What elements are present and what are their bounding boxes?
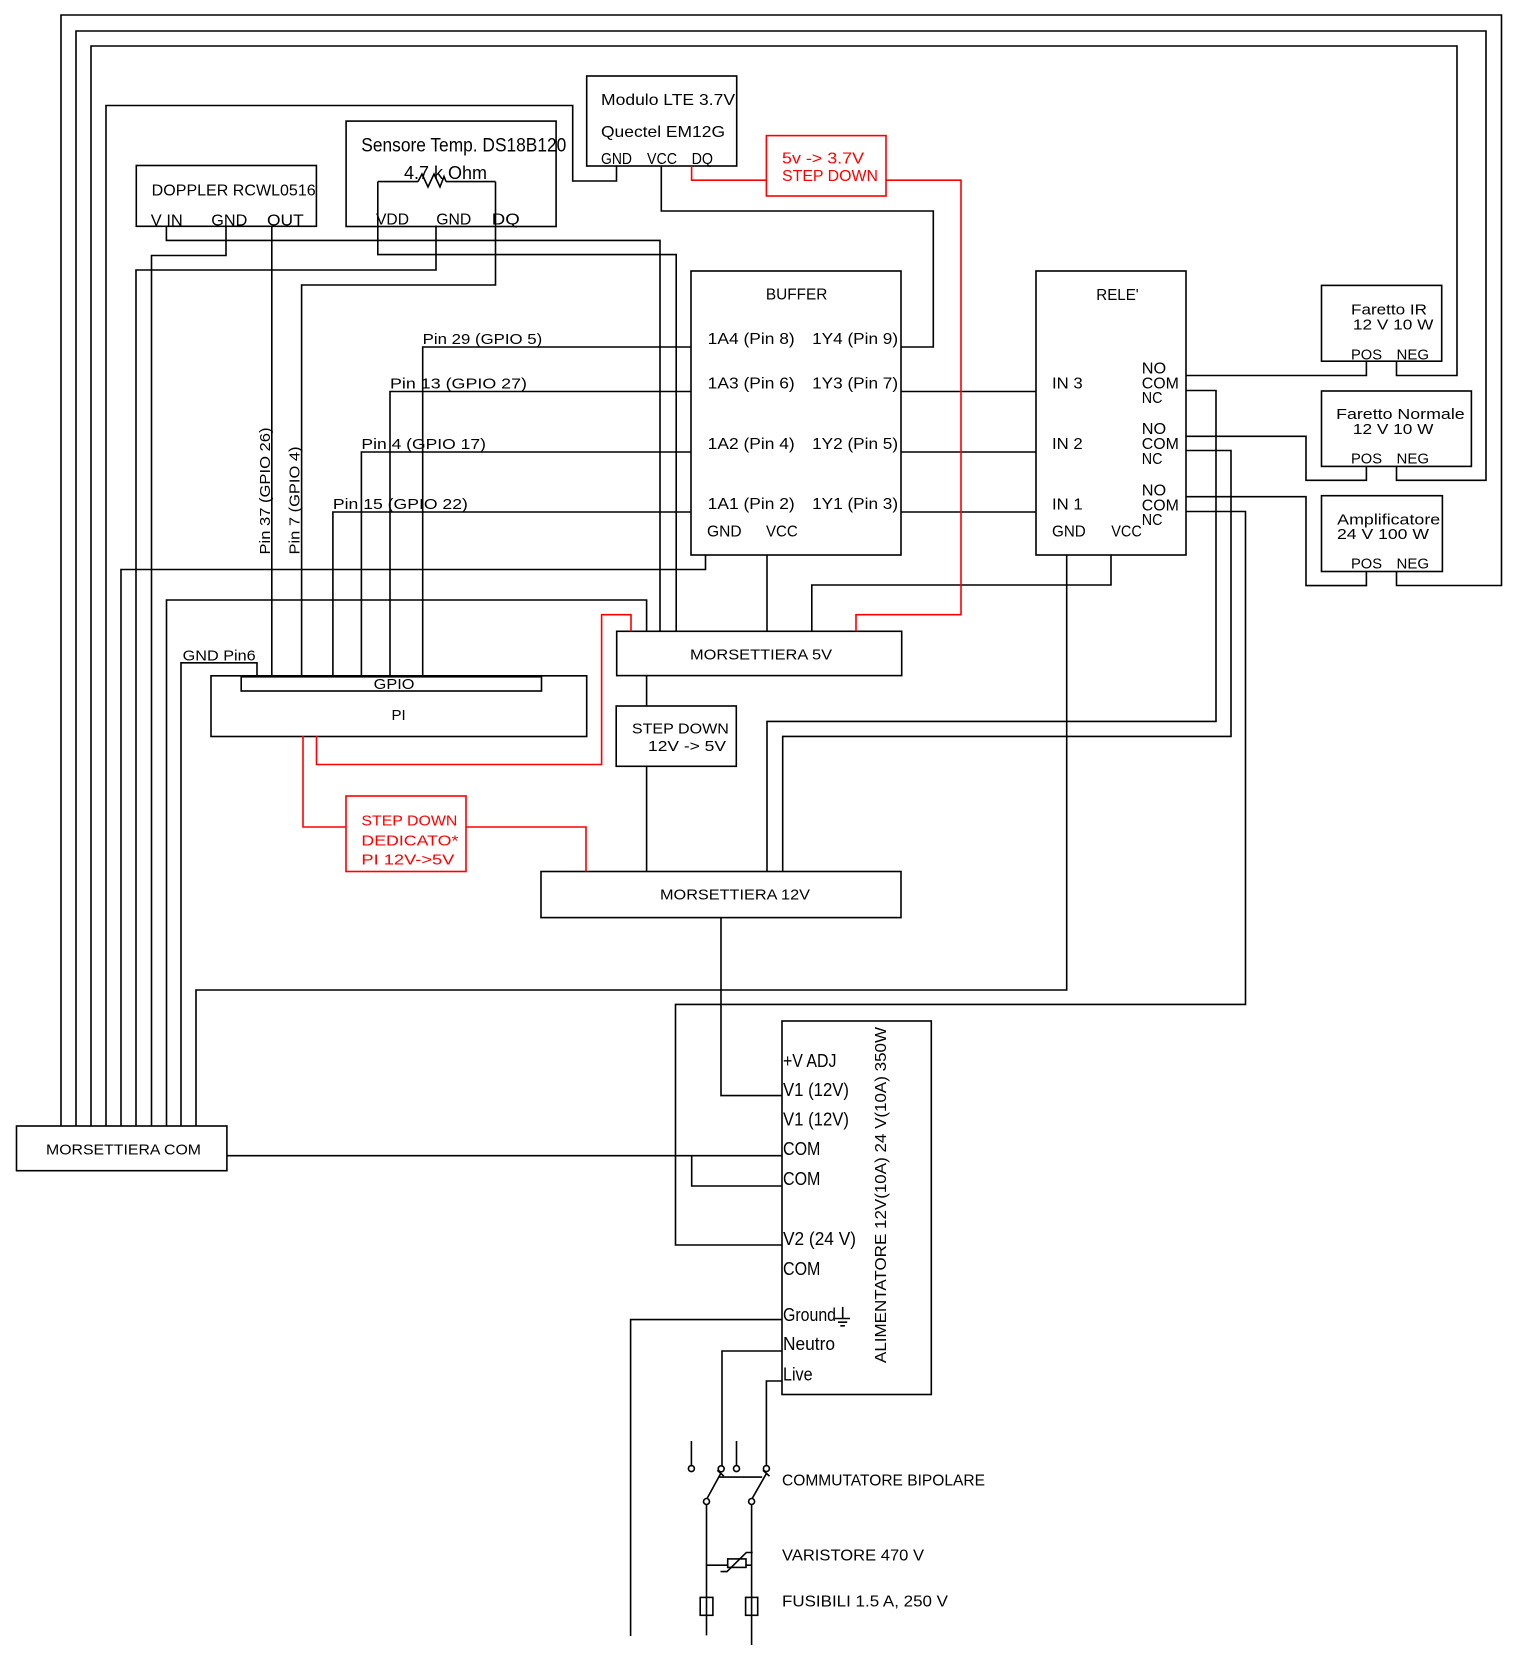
svg-text:1Y3 (Pin 7): 1Y3 (Pin 7) <box>812 376 898 393</box>
wire NEG-loop Faretto IR (frame 3) <box>91 46 1457 1126</box>
wire BUFFER VCC to MORSETTIERA 5V <box>766 555 768 631</box>
wire Sensore DQ = Pin 7 (GPIO 4) <box>302 182 496 677</box>
box MORSETTIERA 12V <box>541 872 901 918</box>
commutatore link bar <box>719 1476 762 1478</box>
svg-text:COM: COM <box>783 1139 820 1159</box>
wire LTE GND loop (frame 4) <box>106 106 617 1127</box>
wire Pin 29 (GPIO 5) to BUFFER 1A4 <box>423 347 691 677</box>
wire LTE DQ to red step down (red) <box>692 166 767 180</box>
svg-text:VDD: VDD <box>376 212 409 229</box>
wire MORSETTIERA 5V to STEP DOWN 12V-5V <box>646 676 648 706</box>
svg-text:PI 12V->5V: PI 12V->5V <box>361 852 454 869</box>
wire MORSETTIERA 12V to ALIMENTATORE V1 12V <box>721 918 782 1096</box>
varistore body <box>728 1559 746 1568</box>
fuse F2 <box>746 1597 758 1615</box>
wire STEP DOWN DEDICATO to MORSETTIERA 12V (red) <box>466 827 586 872</box>
svg-text:GND: GND <box>436 212 471 229</box>
svg-text:Pin 29 (GPIO 5): Pin 29 (GPIO 5) <box>423 331 543 348</box>
svg-text:FUSIBILI 1.5 A, 250 V: FUSIBILI 1.5 A, 250 V <box>782 1594 948 1611</box>
svg-text:ALIMENTATORE 12V(10A) 24 V(10: ALIMENTATORE 12V(10A) 24 V(10A) 350W <box>873 1026 890 1363</box>
wire RELE COM(IN2) to MORSETTIERA 12V <box>783 451 1231 872</box>
wire Sensore GND to MORSETTIERA COM <box>136 226 436 1127</box>
svg-text:NC: NC <box>1142 451 1163 468</box>
svg-text:GND Pin6: GND Pin6 <box>183 648 256 665</box>
commutatore terminal circle A <box>688 1466 694 1472</box>
wire varistore taps <box>707 1564 752 1566</box>
svg-text:Modulo LTE 3.7V: Modulo LTE 3.7V <box>601 92 735 109</box>
svg-text:1A4 (Pin 8): 1A4 (Pin 8) <box>708 331 795 348</box>
box Faretto Normale <box>1322 391 1472 466</box>
commutatore terminal circle Neutro <box>718 1466 724 1472</box>
svg-text:GND: GND <box>211 213 247 230</box>
svg-text:Live: Live <box>783 1365 813 1385</box>
svg-text:Sensore Temp. DS18B120: Sensore Temp. DS18B120 <box>361 136 566 157</box>
svg-text:STEP DOWN: STEP DOWN <box>782 168 878 185</box>
box Faretto IR <box>1322 285 1442 361</box>
svg-text:GND: GND <box>601 151 632 168</box>
varistore strike line <box>721 1553 753 1572</box>
commutatore terminal circle Live <box>763 1466 769 1472</box>
box Modulo LTE <box>587 76 737 166</box>
box STEP DOWN DEDICATO PI (red) <box>346 796 466 872</box>
box Sensore Temp. DS18B120 <box>346 121 556 226</box>
box BUFFER <box>691 271 901 555</box>
svg-text:VCC: VCC <box>766 524 798 541</box>
wire commutatore pole 2 down through fuse <box>751 1504 753 1645</box>
box DOPPLER RCWL0516 <box>136 166 316 227</box>
svg-text:V IN: V IN <box>151 213 183 230</box>
svg-text:COMMUTATORE BIPOLARE: COMMUTATORE BIPOLARE <box>782 1473 985 1490</box>
svg-text:POS: POS <box>1351 556 1382 573</box>
svg-text:12V -> 5V: 12V -> 5V <box>648 738 726 755</box>
box RELE <box>1036 271 1186 555</box>
wire BUFFER 1Y2 to RELE IN 2 <box>901 451 1036 453</box>
box MORSETTIERA COM <box>17 1126 227 1171</box>
svg-text:MORSETTIERA 12V: MORSETTIERA 12V <box>660 887 810 904</box>
box STEP DOWN 12V-5V <box>616 706 736 766</box>
svg-text:BUFFER: BUFFER <box>766 287 828 304</box>
svg-text:Quectel EM12G: Quectel EM12G <box>601 124 725 141</box>
wire NEG-loop Faretto Normale (frame 2) <box>76 31 1486 1126</box>
svg-text:COM: COM <box>783 1259 820 1279</box>
wire Pin 4 (GPIO 17) to BUFFER 1A2 <box>361 452 691 677</box>
svg-text:DQ: DQ <box>492 212 520 229</box>
box GPIO header <box>241 677 541 691</box>
wire STEP DOWN 12V-5V to MORSETTIERA 12V <box>646 766 648 871</box>
box ALIMENTATORE <box>782 1021 931 1395</box>
svg-text:1Y1 (Pin 3): 1Y1 (Pin 3) <box>812 496 898 513</box>
svg-text:Pin 37 (GPIO 26): Pin 37 (GPIO 26) <box>257 428 274 555</box>
wire RELE COM(IN1) to ALIMENTATORE V2 24V <box>676 512 1246 1246</box>
svg-text:COM: COM <box>783 1169 820 1189</box>
wire PI to STEP DOWN DEDICATO (red) <box>303 736 346 827</box>
wire PI 5V feed from dedicated step down (red) <box>317 615 632 765</box>
wire MORSETTIERA COM to ALIMENTATORE COM <box>227 1155 782 1157</box>
svg-text:NEG: NEG <box>1397 347 1430 364</box>
wire ALIMENTATORE Live to commutatore <box>766 1381 782 1466</box>
wire ALIMENTATORE Neutro to commutatore <box>722 1351 782 1466</box>
wire BUFFER 1Y3 to RELE IN 3 <box>901 391 1036 393</box>
svg-text:IN 2: IN 2 <box>1052 436 1083 453</box>
commutatore stub terminals <box>691 1441 736 1466</box>
wire PI GND Pin6 to MORSETTIERA COM <box>181 663 257 1126</box>
svg-text:MORSETTIERA 5V: MORSETTIERA 5V <box>690 647 832 664</box>
wire Doppler GND to MORSETTIERA COM <box>152 226 227 1126</box>
ground symbol at ALIMENTATORE <box>835 1307 850 1326</box>
svg-text:5v -> 3.7V: 5v -> 3.7V <box>782 151 864 168</box>
commutatore blade 1 <box>707 1470 724 1499</box>
wire RELE COM(IN3) to MORSETTIERA 12V <box>767 391 1216 872</box>
svg-text:Pin 4 (GPIO 17): Pin 4 (GPIO 17) <box>361 436 486 453</box>
wire commutatore pole 1 down through fuse <box>706 1504 708 1635</box>
svg-text:+V ADJ: +V ADJ <box>783 1051 836 1071</box>
wire Pin 15 (GPIO 22) to BUFFER 1A1 <box>333 512 691 677</box>
resistor 4.7k zigzag <box>418 174 446 187</box>
wire RELE NO(IN3) to Faretto IR POS <box>1186 361 1366 375</box>
svg-text:OUT: OUT <box>267 213 304 230</box>
wire RELE GND / MORSETTIERA COM bus <box>196 555 1067 1126</box>
svg-text:Pin 13 (GPIO 27): Pin 13 (GPIO 27) <box>390 376 527 393</box>
wire LTE VCC to BUFFER 1Y4 <box>661 166 933 347</box>
svg-text:IN 3: IN 3 <box>1052 376 1083 393</box>
svg-text:DQ: DQ <box>692 151 713 168</box>
svg-text:Pin 7 (GPIO 4): Pin 7 (GPIO 4) <box>287 447 304 555</box>
svg-text:1Y2 (Pin 5): 1Y2 (Pin 5) <box>812 436 898 453</box>
svg-text:GND: GND <box>707 524 742 541</box>
fuse F1 <box>700 1597 713 1615</box>
svg-text:4.7 k Ohm: 4.7 k Ohm <box>404 163 487 183</box>
wire Pin 13 (GPIO 27) to BUFFER 1A3 <box>390 392 691 678</box>
svg-text:GPIO: GPIO <box>374 676 415 693</box>
svg-text:Neutro: Neutro <box>783 1334 835 1354</box>
svg-text:MORSETTIERA COM: MORSETTIERA COM <box>46 1142 201 1159</box>
svg-text:POS: POS <box>1351 347 1382 364</box>
wire NEG-loop Amplificatore (outer frame) <box>61 15 1502 1126</box>
box 5v-3.7V STEP DOWN (red) <box>766 136 886 196</box>
svg-text:12 V 10 W: 12 V 10 W <box>1353 317 1434 334</box>
wire RELE VCC to MORSETTIERA 5V <box>812 555 1111 631</box>
svg-text:PI: PI <box>392 707 406 724</box>
wire BUFFER GND to MORSETTIERA COM <box>121 555 706 1126</box>
svg-text:VARISTORE 470 V: VARISTORE 470 V <box>782 1548 924 1565</box>
wire Doppler OUT = Pin 37 (GPIO 26) <box>271 226 273 677</box>
resistor 4.7k horizontal lead <box>378 181 496 183</box>
box MORSETTIERA 5V <box>617 631 902 675</box>
svg-text:1A2 (Pin 4): 1A2 (Pin 4) <box>708 436 795 453</box>
svg-text:VCC: VCC <box>1111 524 1142 541</box>
svg-text:IN 1: IN 1 <box>1052 497 1083 514</box>
svg-text:V1 (12V): V1 (12V) <box>783 1080 849 1100</box>
svg-text:12 V 10 W: 12 V 10 W <box>1353 421 1434 438</box>
wire Doppler V IN to MORSETTIERA 5V <box>166 226 660 631</box>
svg-text:POS: POS <box>1351 451 1382 468</box>
svg-text:NC: NC <box>1142 512 1163 529</box>
svg-text:DEDICATO*: DEDICATO* <box>361 832 458 849</box>
svg-text:STEP DOWN: STEP DOWN <box>632 721 729 738</box>
wire RELE NO(IN2) to Faretto Normale POS <box>1186 436 1366 480</box>
commutatore terminal circle B <box>734 1466 740 1472</box>
svg-text:V1 (12V): V1 (12V) <box>783 1109 849 1129</box>
svg-text:NC: NC <box>1142 390 1163 407</box>
svg-text:NEG: NEG <box>1397 556 1430 573</box>
wire red step down to MORSETTIERA 5V (red) <box>856 180 961 631</box>
svg-text:1Y4 (Pin 9): 1Y4 (Pin 9) <box>812 331 898 348</box>
svg-text:RELE': RELE' <box>1096 287 1138 304</box>
box Amplificatore <box>1322 496 1443 572</box>
svg-text:STEP DOWN: STEP DOWN <box>361 813 457 830</box>
svg-text:GND: GND <box>1052 524 1086 541</box>
svg-text:Pin 15 (GPIO 22): Pin 15 (GPIO 22) <box>333 496 468 513</box>
wire branch to ALIMENTATORE COM 2 <box>692 1156 782 1186</box>
wire ALIMENTATORE Ground earth lead <box>631 1320 782 1636</box>
wire MORSETTIERA 5V COM pin to MORSETTIERA COM <box>167 600 647 1126</box>
svg-text:Ground: Ground <box>783 1305 836 1325</box>
svg-text:1A3 (Pin 6): 1A3 (Pin 6) <box>708 376 795 393</box>
wire RELE NO(IN1) to Amplificatore POS <box>1186 497 1366 586</box>
wire BUFFER 1Y1 to RELE IN 1 <box>901 511 1036 513</box>
commutatore pole circle 1 <box>704 1499 710 1505</box>
svg-text:DOPPLER RCWL0516: DOPPLER RCWL0516 <box>152 182 316 199</box>
svg-text:V2 (24 V): V2 (24 V) <box>783 1229 856 1249</box>
svg-text:VCC: VCC <box>647 151 677 168</box>
commutatore pole circle 2 <box>749 1499 755 1505</box>
commutatore blade 2 <box>752 1470 770 1499</box>
svg-text:24 V 100 W: 24 V 100 W <box>1337 526 1430 543</box>
svg-text:NEG: NEG <box>1397 451 1430 468</box>
box PI <box>211 676 587 737</box>
svg-text:1A1 (Pin 2): 1A1 (Pin 2) <box>708 496 795 513</box>
wire Sensore VDD to MORSETTIERA 5V <box>378 182 676 632</box>
